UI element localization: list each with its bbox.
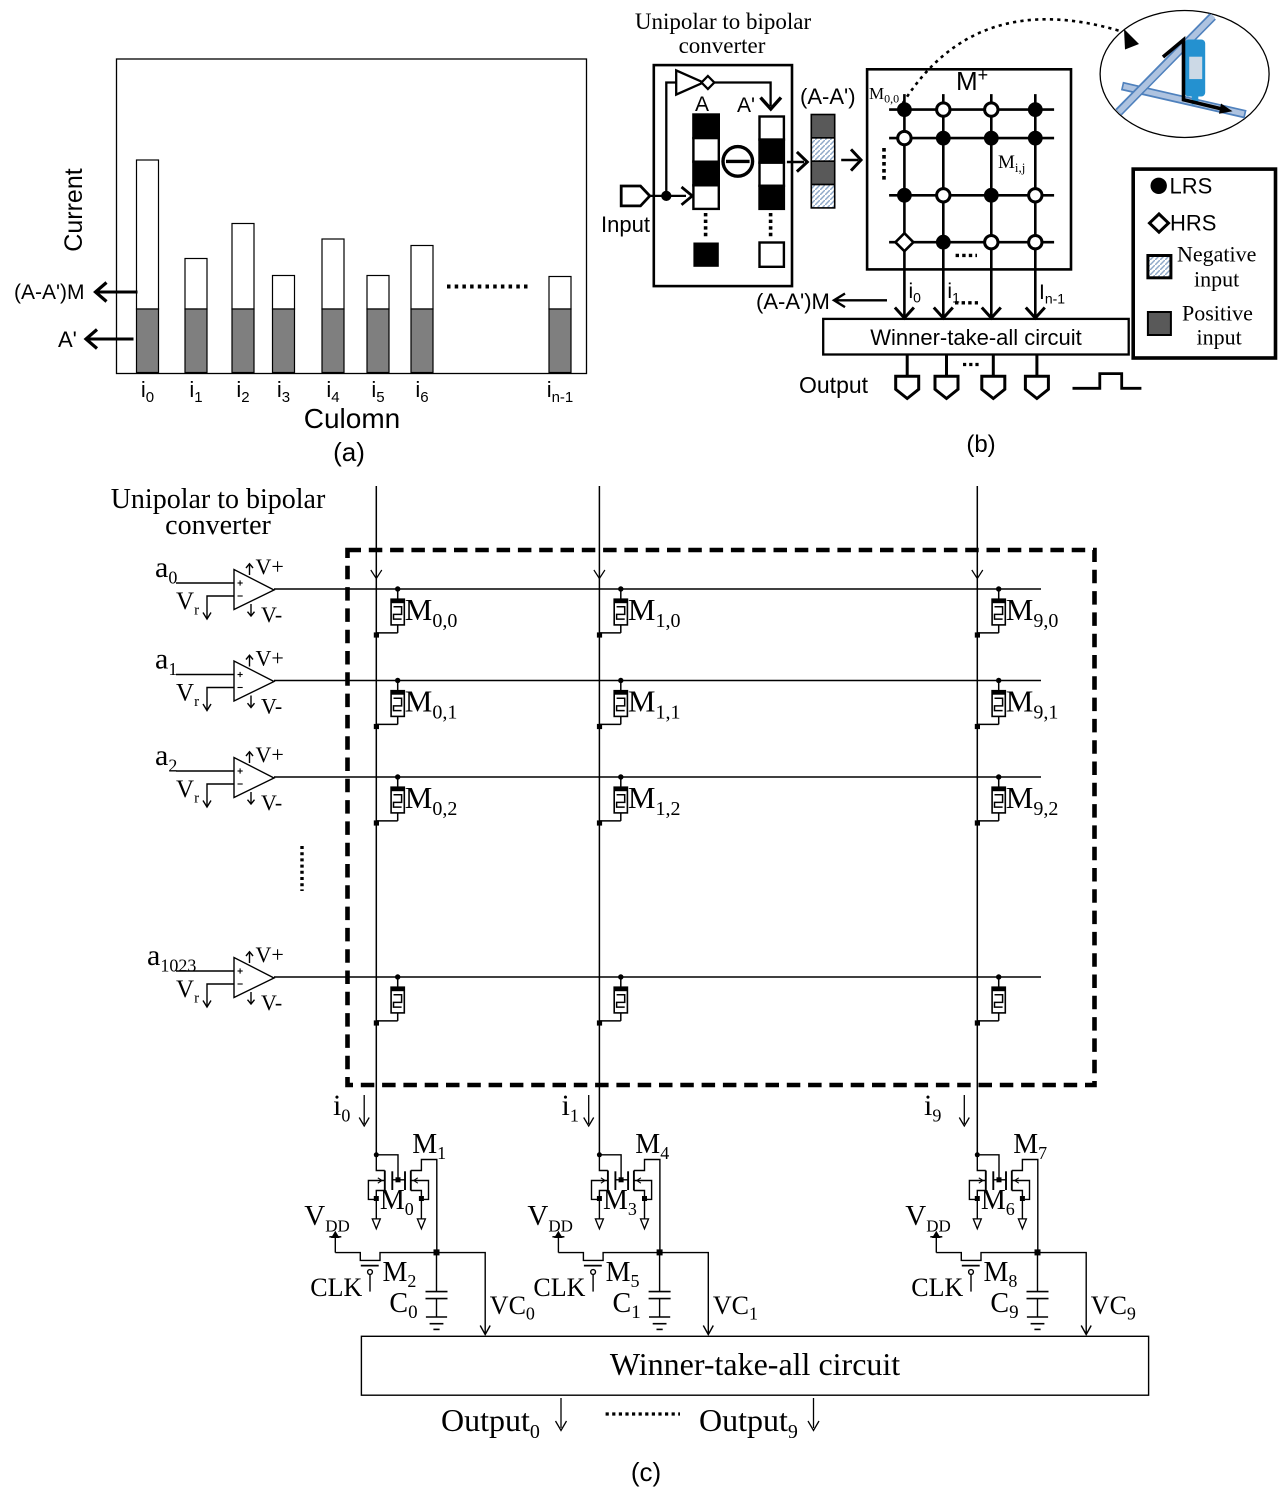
crossbar ellipsis horizontal bbox=[956, 254, 977, 257]
legend negative input bbox=[1148, 242, 1257, 292]
bar i0 bbox=[137, 160, 159, 373]
svg-text:CLK: CLK bbox=[310, 1273, 362, 1302]
minus circle bbox=[723, 147, 753, 177]
arrow A' to (A-A') bbox=[787, 152, 807, 172]
svg-text:V+: V+ bbox=[256, 742, 284, 767]
label Mi,j bbox=[998, 152, 1025, 175]
svg-text:(A-A')M: (A-A')M bbox=[14, 281, 85, 304]
svg-text:Winner-take-all circuit: Winner-take-all circuit bbox=[610, 1346, 900, 1382]
panel (a): bar chart bbox=[14, 59, 587, 467]
svg-text:A: A bbox=[695, 93, 709, 116]
svg-text:V+: V+ bbox=[256, 554, 284, 579]
zoom ellipse bbox=[1100, 11, 1269, 138]
label A' bbox=[737, 94, 755, 117]
wire input line bbox=[650, 187, 693, 205]
svg-text:V-: V- bbox=[261, 790, 282, 815]
label M0,0 bbox=[869, 84, 899, 106]
memristor M9,2 r2 c2 bbox=[975, 774, 1059, 825]
svg-text:input: input bbox=[1194, 267, 1239, 292]
svg-text:Positive: Positive bbox=[1182, 301, 1253, 326]
winner-take-all box (b) bbox=[823, 319, 1128, 355]
input pentagon bbox=[621, 186, 650, 206]
bar i6 bbox=[411, 246, 433, 373]
svg-text:Culomn: Culomn bbox=[304, 403, 400, 434]
ellipsis below A bbox=[704, 213, 708, 237]
crossbar row wires bbox=[889, 110, 1054, 243]
svg-text:V-: V- bbox=[261, 602, 282, 627]
A bottom square bbox=[693, 243, 718, 267]
crossbar column wires bbox=[904, 94, 1035, 316]
memristor Mx r3 c1 bbox=[597, 974, 628, 1025]
svg-text:Output0: Output0 bbox=[441, 1402, 540, 1443]
crossbar box M+ bbox=[867, 69, 1071, 269]
svg-text:input: input bbox=[1197, 325, 1242, 350]
row ellipsis bbox=[300, 846, 303, 891]
svg-text:HRS: HRS bbox=[1170, 211, 1216, 236]
op-amp row a2 bbox=[155, 739, 284, 815]
op-amp row a1023 bbox=[147, 939, 284, 1015]
svg-text:converter: converter bbox=[679, 33, 766, 58]
axis label i1 bbox=[189, 377, 202, 406]
vector (A-A') column bbox=[811, 115, 834, 208]
caption (c) bbox=[631, 1457, 661, 1487]
memristor M0,1 r1 c0 bbox=[374, 678, 458, 729]
winner-take-all box (c) bbox=[361, 1336, 1148, 1395]
svg-text:V+: V+ bbox=[256, 646, 284, 671]
svg-text:V+: V+ bbox=[256, 942, 284, 967]
svg-text:Input: Input bbox=[601, 212, 650, 237]
memristor Mx r3 c0 bbox=[374, 974, 405, 1025]
svg-text:Winner-take-all circuit: Winner-take-all circuit bbox=[870, 325, 1082, 350]
pulse waveform bbox=[1073, 374, 1142, 389]
axis label i3 bbox=[277, 377, 290, 406]
crossbar memristor state dots bbox=[895, 102, 1042, 251]
svg-text:converter: converter bbox=[165, 510, 271, 541]
wire inverter input bbox=[666, 83, 676, 196]
black current path arrow bbox=[1163, 40, 1233, 114]
svg-text:Output: Output bbox=[799, 372, 869, 398]
dotted between outputs bbox=[606, 1412, 680, 1415]
memristor M0,2 r2 c0 bbox=[374, 774, 458, 825]
legend positive input bbox=[1148, 301, 1253, 350]
crossbar ellipsis vertical bbox=[882, 148, 886, 181]
axis label i5 bbox=[371, 377, 384, 406]
svg-text:(a): (a) bbox=[333, 437, 365, 467]
svg-text:V-: V- bbox=[261, 990, 282, 1015]
axis label i2 bbox=[236, 377, 249, 406]
memristor cell sketch bbox=[1185, 40, 1206, 105]
bar i2 bbox=[232, 224, 254, 373]
ellipsis below A' bbox=[769, 213, 773, 237]
label A' with arrow bbox=[58, 327, 134, 352]
label M+ bbox=[956, 65, 988, 96]
svg-text:(A-A'): (A-A') bbox=[800, 84, 856, 109]
panel (c): transistor level schematic bbox=[111, 484, 1149, 1487]
bar i4 bbox=[322, 239, 344, 373]
converter box bbox=[654, 65, 792, 286]
label A bbox=[695, 93, 709, 116]
svg-text:(A-A')M: (A-A')M bbox=[756, 289, 830, 314]
memristor M1,2 r2 c1 bbox=[597, 774, 681, 825]
memristor M1,1 r1 c1 bbox=[597, 678, 681, 729]
legend LRS bbox=[1151, 174, 1213, 199]
axis label in-1 bbox=[547, 377, 574, 406]
op-amp row a0 bbox=[155, 551, 284, 627]
svg-text:A': A' bbox=[58, 327, 77, 352]
dotted between i labels bbox=[955, 301, 978, 304]
dotted between pentagons bbox=[963, 363, 981, 366]
legend HRS bbox=[1150, 211, 1217, 236]
chart axis box bbox=[117, 59, 587, 374]
svg-text:CLK: CLK bbox=[911, 1273, 963, 1302]
bar i3 bbox=[273, 276, 295, 373]
svg-text:Negative: Negative bbox=[1177, 242, 1256, 267]
op-amp row a1 bbox=[155, 643, 284, 719]
label Output9 bbox=[699, 1398, 819, 1443]
memristor M9,0 r0 c2 bbox=[975, 586, 1059, 637]
svg-text:Output9: Output9 bbox=[699, 1402, 798, 1443]
output pentagons bbox=[896, 355, 1049, 399]
svg-text:A': A' bbox=[737, 94, 755, 117]
current label i9 bbox=[924, 1089, 969, 1126]
A' bottom square bbox=[760, 243, 784, 267]
label i0 (b) bbox=[909, 280, 922, 306]
inverter U1 bbox=[676, 70, 714, 94]
arrows into WTA bbox=[895, 308, 1045, 319]
svg-text:Unipolar to bipolar: Unipolar to bipolar bbox=[635, 9, 812, 34]
svg-text:(c): (c) bbox=[631, 1457, 661, 1487]
label i1 (b) bbox=[947, 280, 960, 306]
svg-text:Current: Current bbox=[60, 168, 88, 251]
arrow (A-A') to crossbar bbox=[841, 149, 861, 170]
row wires bbox=[274, 589, 1041, 977]
dotted continuation between bars bbox=[447, 285, 528, 289]
bar in-1 bbox=[549, 277, 571, 373]
label Input bbox=[601, 212, 650, 237]
dashed array box bbox=[348, 550, 1095, 1085]
current label i0 bbox=[333, 1089, 369, 1126]
current mirror block column 0 bbox=[304, 1129, 535, 1335]
blue diagonal nanowire bbox=[1119, 16, 1214, 112]
vector A column bbox=[693, 115, 718, 209]
legend box bbox=[1133, 169, 1275, 358]
blue bottom nanowire bbox=[1122, 86, 1246, 114]
svg-text:CLK: CLK bbox=[533, 1273, 585, 1302]
bar i1 bbox=[185, 259, 207, 373]
memristor M0,0 r0 c0 bbox=[374, 586, 458, 637]
caption (a) bbox=[333, 437, 365, 467]
label (A-A') bbox=[800, 84, 856, 109]
current mirror block column 9 bbox=[905, 1129, 1136, 1335]
axis label i0 bbox=[141, 377, 154, 406]
label Output0 bbox=[441, 1398, 567, 1443]
axis label i4 bbox=[326, 377, 339, 406]
current mirror block column 1 bbox=[527, 1129, 758, 1335]
axis label i6 bbox=[415, 377, 428, 406]
wire inverter output to A' bbox=[714, 83, 781, 110]
dashed arc to zoom ellipse bbox=[903, 19, 1139, 103]
bar i5 bbox=[367, 276, 389, 373]
current label i1 bbox=[562, 1089, 594, 1126]
label In-1 (b) bbox=[1039, 281, 1065, 307]
memristor M9,1 r1 c2 bbox=[975, 678, 1059, 729]
label (A-A')M with arrow (b) bbox=[756, 289, 887, 314]
memristor M1,0 r0 c1 bbox=[597, 586, 681, 637]
title Unipolar to bipolar converter (c) bbox=[111, 484, 326, 541]
label Output (b) bbox=[799, 372, 869, 398]
vector A' column bbox=[760, 117, 784, 209]
title Unipolar to bipolar converter bbox=[635, 9, 812, 58]
svg-text:(b): (b) bbox=[966, 431, 995, 458]
x axis title Culomn bbox=[304, 403, 400, 434]
column wires bbox=[376, 486, 977, 1155]
y axis title Current bbox=[60, 168, 88, 251]
svg-text:V-: V- bbox=[261, 694, 282, 719]
memristor Mx r3 c2 bbox=[975, 974, 1006, 1025]
svg-text:LRS: LRS bbox=[1170, 174, 1213, 199]
column top arrows bbox=[371, 570, 983, 579]
label (A-A')M with arrow bbox=[14, 281, 138, 304]
panel (b): block diagram bbox=[601, 9, 1269, 458]
caption (b) bbox=[966, 431, 995, 458]
